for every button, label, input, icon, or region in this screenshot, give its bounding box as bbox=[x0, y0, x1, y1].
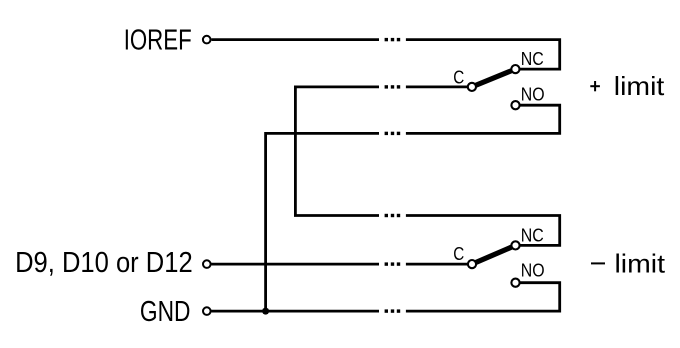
svg-text:NC: NC bbox=[521, 48, 544, 69]
svg-text:C: C bbox=[453, 243, 464, 264]
svg-text:C: C bbox=[453, 66, 464, 87]
svg-text:NC: NC bbox=[521, 224, 544, 245]
svg-text:IOREF: IOREF bbox=[124, 24, 192, 56]
svg-text:D9, D10 or D12: D9, D10 or D12 bbox=[15, 247, 193, 279]
svg-text:limit: limit bbox=[614, 73, 665, 101]
svg-text:NO: NO bbox=[521, 83, 545, 104]
svg-text:NO: NO bbox=[521, 260, 545, 281]
svg-text:GND: GND bbox=[140, 296, 191, 328]
svg-text:limit: limit bbox=[615, 250, 666, 278]
